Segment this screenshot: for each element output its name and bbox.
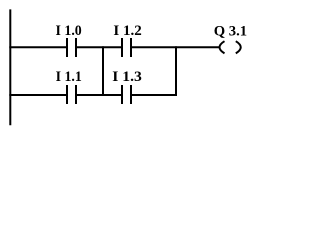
contact I1.3 (122, 85, 131, 104)
contact I1.0 (67, 38, 76, 57)
contact I1.2 (122, 38, 131, 57)
svg-text:I 1.0: I 1.0 (56, 23, 82, 40)
wire rung1 contact I1.2 to coil (131, 46, 220, 48)
coil Q3.1 right paren (236, 41, 241, 53)
svg-text:Q 3.1: Q 3.1 (214, 23, 247, 39)
contact I1.1 (67, 85, 76, 104)
wire rung2 contact I1.1 to contact I1.3 (76, 94, 122, 96)
wire rung1 rail to contact I1.0 (9, 46, 67, 48)
wire rung1 contact I1.0 to contact I1.2 (76, 46, 122, 48)
wire rung2 contact I1.3 to right branch (131, 94, 177, 96)
branch connector middle (rung1 to rung2) (102, 46, 104, 95)
wire rung2 rail to contact I1.1 (9, 94, 67, 96)
coil Q3.1 left paren (220, 41, 225, 53)
left power rail (9, 9, 11, 125)
svg-text:I 1.1: I 1.1 (56, 69, 82, 86)
svg-text:I 1.3: I 1.3 (112, 68, 142, 85)
svg-text:I 1.2: I 1.2 (113, 23, 141, 39)
branch connector right (rung1 to rung2) (175, 46, 177, 95)
